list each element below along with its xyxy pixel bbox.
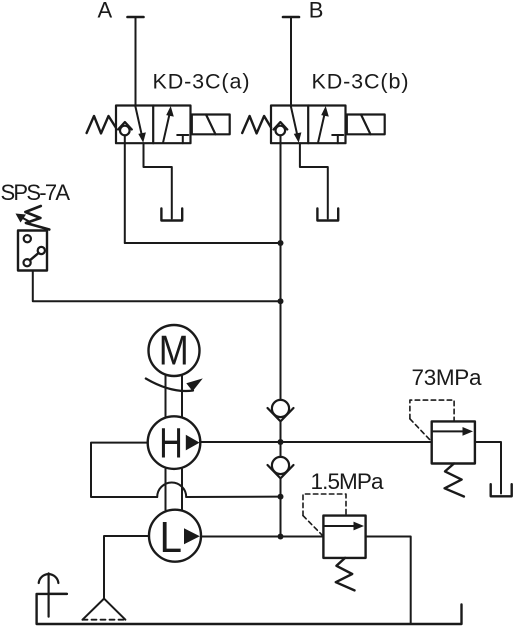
node junction J5 [278,534,284,540]
valve U2 flow path arrow (right box) [318,106,329,143]
strainer F1 [83,599,126,620]
check valve CV2 [268,457,294,479]
valve U2 blocked T port [332,135,343,143]
wire between check valves [280,421,282,457]
wire L output [201,536,323,538]
wire RV1 output [475,442,501,494]
RV2 spring [336,558,355,591]
svg-text:73MPa: 73MPa [412,365,482,390]
svg-text:KD-3C(b): KD-3C(b) [312,70,409,94]
wire L suction [104,536,149,599]
RV1 internal arrow [432,427,473,436]
pressure switch PS1 box [18,231,47,271]
reservoir tank outline [37,594,462,624]
wire RV1 input [281,441,432,443]
wire PS1 to main line [33,271,281,302]
RV2 dashed leader [303,494,346,536]
wire A to valve [135,17,137,106]
node junction J4 [278,494,284,500]
motor M1 circle [149,325,200,376]
wire U1 P port down [124,135,126,243]
svg-text:L: L [160,513,183,562]
wire RV2 output [366,537,411,625]
svg-text:SPS-7A: SPS-7A [1,180,71,205]
wire H bypass loop [91,443,281,497]
drain tank of U1 [161,209,182,221]
solenoid of U1 [192,115,230,135]
relief valve RV2 box [323,516,365,558]
valve U1 flow path arrow (right box) [163,106,174,143]
spring of U1 [87,116,116,133]
spring of U2 [242,116,271,133]
valve U2 KD-3C(b) body [271,106,346,144]
PS1 contact bar [30,253,39,260]
valve U2 ball check [274,122,288,135]
pump P1 output triangle [186,435,200,451]
breather B1 [39,573,67,616]
wire main vertical lower [280,478,282,536]
wire main vertical upper [280,135,282,400]
valve U1 ball check [118,122,132,135]
check valve CV1 [268,400,294,422]
node junction J1 [278,240,284,246]
pressure switch PS1 lightning zigzag [25,206,49,230]
svg-text:B: B [309,0,324,23]
drain tank of U2 [317,209,338,221]
wire H output [200,441,280,443]
wire U1 drain [144,143,172,218]
PS1 contact terminal 3 [24,259,31,266]
RV1 spring [445,464,464,497]
pressure switch PS1 arrow [16,214,31,223]
node junction J2 [278,298,284,304]
pump P1 (H) circle [148,416,201,469]
solenoid of U2 [347,115,385,135]
valve U1 KD-3C(a) body [116,106,191,144]
wire U2 drain [300,143,328,218]
valve U1 flow path arrow (left box) [135,106,146,143]
wire A-P horizontal [125,242,281,244]
relief valve RV1 box [432,421,475,463]
PS1 contact terminal 1 [24,235,31,242]
valve U2 flow path arrow (left box) [291,106,302,143]
shaft M1 to P1 [166,376,183,417]
node junction J3 [278,439,284,445]
svg-text:KD-3C(a): KD-3C(a) [153,70,250,94]
pump P2 output triangle [184,528,200,544]
svg-text:H: H [159,420,183,468]
wire B to valve [290,17,292,106]
svg-text:1.5MPa: 1.5MPa [311,469,384,494]
motor M1 rotation arrow [146,378,203,391]
RV1 dashed leader [410,400,454,441]
port A tick [128,16,144,19]
PS1 contact terminal 2 [38,247,45,254]
RV1 drain tank [491,484,512,496]
RV2 internal arrow [323,522,364,531]
shaft P1 to P2 [166,469,183,510]
port B tick [283,16,299,19]
svg-text:A: A [98,0,113,23]
svg-text:M: M [159,327,189,374]
pump P2 (L) circle [149,510,201,562]
valve U1 blocked T port [177,135,188,143]
